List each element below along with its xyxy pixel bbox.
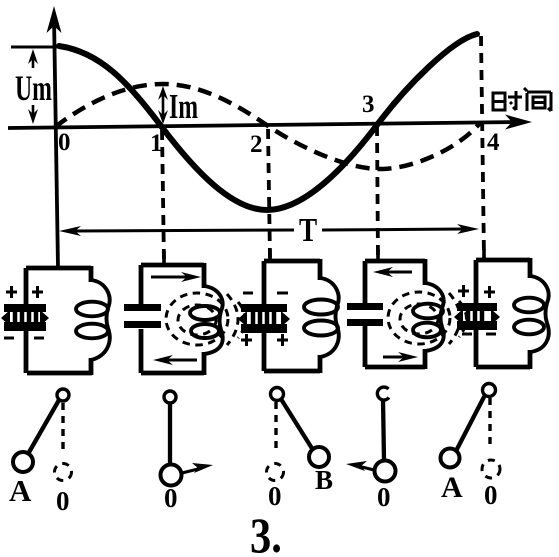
svg-text:0: 0 [164,483,178,513]
pendulum 4 velocity arrow [346,461,374,471]
pendulum 1 pivot [57,389,69,401]
period dimension line T [59,224,479,236]
C5 polarity + + [458,285,495,298]
label: time (时间) [493,88,551,111]
C5 polarity - - [462,333,496,336]
circuit 5 loop wires [476,258,530,369]
pendulum 1 rest bob (dashed) [55,464,72,481]
drop stub t=3 [376,249,380,263]
inductor L2 [190,286,223,354]
pendulum 4 pivot [377,387,389,400]
pendulum 5 bob A [441,449,460,468]
pendulum 3 rest bob (dashed) [267,464,284,481]
dashed drop line t=4 [481,36,484,258]
pendulum 1 bob A [13,452,33,472]
pendulum 4 bob [375,461,396,482]
dashed drop line t=3 [377,126,378,259]
capacitor C3 (charged, reversed) [238,304,290,333]
svg-text:3.: 3. [250,509,282,557]
C1 polarity + + [6,286,43,298]
current curve I (dashed sine) [55,84,480,169]
svg-text:Im: Im [169,88,198,127]
dashed drop line t=1 [162,130,164,263]
drop stub t=4 [482,249,486,262]
pendulum 3 rod [281,399,313,450]
svg-text:4: 4 [487,129,500,156]
inductor L5 [514,276,549,352]
C3 polarity - - (top) [243,292,288,295]
pendulum 1 rest line (dashed) [61,403,64,452]
svg-text:A: A [9,473,32,508]
svg-text:0: 0 [58,129,71,156]
svg-text:2: 2 [250,131,263,158]
pendulum 4 rod [383,399,384,460]
current arrow top (rightward) [151,272,201,282]
svg-text:0: 0 [377,482,391,512]
current arrow top (leftward) [373,267,412,277]
Im dimension arrow [158,86,168,124]
C1 polarity - - [4,337,44,340]
pendulum 1 rod [28,400,59,454]
svg-text:3: 3 [362,91,375,118]
pendulum 2 bob [161,465,182,486]
capacitor C4 (discharged) [347,303,383,326]
capacitor C2 (discharged) [124,304,161,328]
circuit 2 loop wires [141,263,204,375]
svg-text:0: 0 [268,481,282,511]
pendulum 2 velocity arrow [182,463,213,473]
svg-text:Um: Um [15,68,52,108]
current arrow bottom (leftward) [153,355,197,365]
current arrow bottom (rightward) [383,352,418,362]
circuit 3 loop wires [264,259,320,373]
pendulum 3 rest line (dashed) [274,402,277,452]
circuit 4 loop wires [365,259,425,369]
pendulum 5 rest line (dashed) [488,398,491,450]
inductor L1 [76,280,110,360]
Um level line [11,46,58,49]
svg-text:A: A [441,471,463,504]
inductor L3 [304,278,339,357]
pendulum 2 pivot [164,391,176,403]
svg-text:0: 0 [56,486,70,516]
pendulum 5 pivot [483,384,496,397]
drop stub t=1 [162,251,166,266]
capacitor C5 (charged) [454,303,500,330]
Um dimension arrow (upper) [28,49,38,68]
svg-text:0: 0 [484,480,498,510]
x-axis (time axis) [8,115,532,130]
magnetic field lines around L4 [388,292,467,344]
pendulum 3 bob B [309,447,329,467]
pendulum 5 rest bob (dashed) [482,460,500,478]
C3 polarity + + (bottom) [241,334,288,346]
svg-text:T: T [299,211,318,249]
inductor L4 [413,283,444,351]
drop stub t=2 [268,249,272,263]
pendulum 3 pivot [271,388,284,401]
y-axis (voltage axis) [47,6,62,268]
capacitor C1 (charged) [1,304,49,331]
Um dimension arrow (lower) [28,105,38,124]
voltage curve U (solid cosine) [59,34,477,210]
pendulum 5 rod [456,395,485,451]
circuit 1 loop wires [26,266,92,375]
svg-text:B: B [315,465,333,495]
pendulum 2 rod [168,403,172,464]
magnetic field lines around L2 [166,293,246,345]
dashed drop line t=2 [268,129,270,259]
